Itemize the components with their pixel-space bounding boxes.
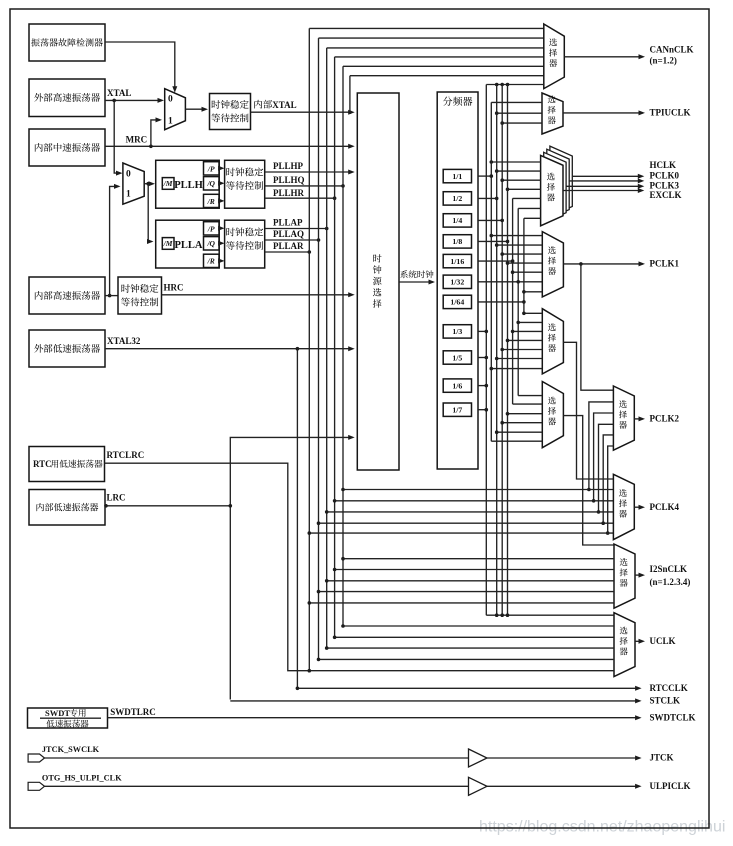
svg-text:/R: /R (207, 197, 215, 206)
selector mux TPIUCLK (542, 93, 563, 134)
divider /Q of PLLH (204, 177, 220, 190)
wire PLLAR to spine (265, 251, 310, 253)
divider 1/5 (443, 351, 471, 364)
svg-text:(n=1.2.3.4): (n=1.2.3.4) (650, 577, 691, 587)
svg-text:/P: /P (207, 224, 215, 233)
svg-text:MRC: MRC (126, 135, 148, 145)
svg-text:RTCLRC: RTCLRC (107, 450, 145, 460)
block internal medium-speed oscillator (29, 129, 105, 166)
block PLLH (156, 160, 220, 208)
selector mux I2SnCLK (614, 544, 635, 608)
wire XTAL down to PLL mux (114, 100, 120, 173)
wires stage1b inputs (518, 395, 542, 397)
wire top bus lines to CANnCLK selector (309, 27, 544, 29)
wire buffer to JTCK output (487, 757, 640, 759)
wire mux2 output to PLLH (144, 183, 153, 185)
wire HRC to clock-source-select (162, 294, 353, 296)
wire UCLK output (635, 640, 643, 642)
svg-text:PLLHQ: PLLHQ (273, 175, 305, 185)
wire divider tap vertical 1/3-bus (485, 85, 487, 616)
svg-text:(n=1.2): (n=1.2) (650, 56, 677, 66)
wire TPIU input3 (502, 122, 542, 124)
wires UCLK inputs from spine (343, 625, 614, 627)
svg-text:1/8: 1/8 (452, 237, 462, 246)
svg-text:SWDT: SWDT (45, 708, 70, 718)
wire divider tap vertical 1/2 (496, 85, 498, 616)
divider /P of PLLA (204, 222, 220, 235)
wires PCLK2-stage2 riser inputs (589, 402, 614, 490)
wire CAN input7 bus from divider taps (486, 84, 544, 86)
svg-text:1/32: 1/32 (450, 278, 464, 287)
svg-text:XTAL: XTAL (272, 100, 296, 110)
block internal high-speed oscillator (29, 277, 105, 314)
svg-text:/M: /M (163, 179, 173, 188)
svg-text:PLLHR: PLLHR (273, 188, 305, 198)
svg-text:https://blog.csdn.net/zhaopeng: https://blog.csdn.net/zhaopenglihui (479, 819, 725, 836)
svg-text:JTCK_SWCLK: JTCK_SWCLK (42, 745, 100, 754)
selector mux PCLK2-stage1a (542, 309, 563, 374)
wire RTCLRC from RTC-osc (105, 463, 615, 671)
svg-text:1/16: 1/16 (450, 257, 464, 266)
wires I2S inputs from spine (343, 558, 614, 560)
wire divider tap vertical 1/32 (517, 208, 519, 395)
node int-XTAL branch to spine (348, 110, 352, 114)
svg-text:XTAL: XTAL (107, 88, 131, 98)
wires stage1a inputs (524, 312, 542, 314)
divider /M of PLLH (162, 178, 174, 190)
wire PCLK4 output (634, 506, 643, 508)
divider 1/16 (443, 254, 471, 267)
block internal low-speed oscillator (29, 490, 105, 526)
wires HCLK mux inputs from divider taps (491, 161, 540, 163)
svg-text:CANnCLK: CANnCLK (650, 44, 694, 54)
wire stage1b output to I2S input (563, 416, 614, 545)
selector mux UCLK (614, 613, 635, 677)
divider 1/6 (443, 379, 471, 392)
svg-text:PLLAP: PLLAP (273, 218, 303, 228)
svg-text:PCLK4: PCLK4 (650, 502, 680, 512)
svg-text:TPIUCLK: TPIUCLK (650, 108, 691, 118)
selector mux PCLK4 (613, 474, 634, 539)
svg-text:OTG_HS_ULPI_CLK: OTG_HS_ULPI_CLK (42, 773, 122, 782)
svg-text:LRC: LRC (107, 493, 126, 503)
block oscillator-fault-detector (29, 24, 105, 61)
selector mux PCLK2 (613, 386, 634, 450)
svg-text:I2SnCLK: I2SnCLK (650, 564, 688, 574)
divider /P of PLLH (204, 162, 220, 175)
node mux2 output branch (146, 182, 150, 186)
svg-text:/Q: /Q (206, 239, 215, 248)
wire PLLAQ to spine (265, 239, 319, 241)
wire OTG_HS_ULPI_CLK to buffer (45, 785, 469, 787)
wire stage1a output to PCLK4 input (563, 342, 613, 479)
buffer ULPICLK (469, 777, 488, 795)
wire int-hs-osc to wait-control (105, 295, 118, 297)
svg-text:1/7: 1/7 (452, 406, 462, 415)
svg-text:0: 0 (126, 169, 131, 179)
wire spine int-XTAL vertical (349, 76, 351, 113)
wire spine PLLAQ vertical (318, 38, 320, 659)
block frequency divider (437, 92, 478, 469)
svg-text:RTC: RTC (33, 459, 52, 469)
svg-text:1/4: 1/4 (452, 216, 462, 225)
block clock-stable wait control (PLLA) (225, 220, 265, 268)
wire mux1 output to wait-control (185, 108, 206, 110)
svg-text:1/5: 1/5 (452, 353, 462, 362)
wire mux2 output down to PLLA (148, 184, 151, 242)
divider 1/32 (443, 275, 471, 288)
svg-text:EXCLK: EXCLK (650, 190, 682, 200)
wire MRC from int-ms-osc to clock-source-select (105, 145, 353, 147)
divider 1/4 (443, 214, 471, 227)
svg-text:1/6: 1/6 (452, 381, 462, 390)
block clock-source-select (357, 93, 399, 470)
svg-text:PCLK2: PCLK2 (650, 414, 680, 424)
wire int-XTAL to clock-source-select (251, 111, 353, 113)
divider 1/64 (443, 295, 471, 308)
wire UCLK input bus from divider taps (486, 614, 614, 616)
node PCLK1 output branch (579, 262, 583, 266)
buffer JTCK (469, 749, 488, 767)
wire JTCK_SWCLK to buffer (45, 757, 469, 759)
input port JTCK_SWCLK (28, 754, 44, 762)
divider 1/3 (443, 325, 471, 338)
wire I2SnCLK output (635, 574, 643, 576)
selector mux CANnCLK (544, 24, 565, 89)
wire PLLHP to clock-source-select (265, 171, 353, 173)
wire PCLK1 output (563, 263, 643, 265)
block clock-stable wait control (HRC) (118, 277, 162, 314)
divider /R of PLLH (204, 194, 220, 207)
wire spine PLLHR vertical (334, 57, 336, 637)
wires PLLA dividers to wait-control (219, 227, 223, 229)
svg-text:PLLH: PLLH (174, 180, 203, 191)
wire PLLAP to spine (265, 228, 327, 230)
wire buffer to ULPICLK output (487, 785, 640, 787)
wires divider output stubs (478, 175, 491, 177)
svg-text:/R: /R (207, 257, 215, 266)
input port OTG_HS_ULPI_CLK (28, 782, 44, 790)
svg-text:XTAL32: XTAL32 (107, 336, 141, 346)
wire HRC tap up to mux2 input 1 (110, 186, 119, 295)
wire LRC from int-ls-osc (105, 505, 230, 507)
wire TPIUCLK output (563, 112, 643, 114)
wire spine PLLAR vertical (308, 28, 310, 670)
svg-text:RTCCLK: RTCCLK (650, 683, 688, 693)
svg-text:ULPICLK: ULPICLK (650, 781, 691, 791)
mux2 PLL source selector (123, 163, 144, 204)
block RTC low-speed oscillator (29, 447, 105, 482)
block SWDT dedicated low-speed oscillator (28, 708, 108, 728)
svg-text:PLLAR: PLLAR (273, 241, 304, 251)
svg-text:PCLK0: PCLK0 (650, 170, 680, 180)
svg-text:/M: /M (163, 239, 173, 248)
block external low-speed oscillator (29, 330, 105, 367)
svg-text:0: 0 (168, 95, 173, 105)
wires PCLK1 inputs (491, 235, 542, 237)
block clock-stable wait control (XTAL path) (210, 94, 251, 130)
wire PLLHQ to spine (265, 185, 343, 187)
wire divider tap vertical 1/8 (507, 85, 509, 616)
wire PCLK2 output (634, 418, 643, 420)
wire divider tap vertical 1/16 (512, 198, 514, 404)
block clock-stable wait control (PLLH) (225, 160, 265, 208)
node MRC branch (149, 145, 153, 149)
svg-text:1/3: 1/3 (452, 327, 462, 336)
wire XTAL from ext-hs-osc to mux1 (105, 99, 162, 101)
block external high-speed oscillator (29, 79, 105, 117)
node XTAL32 branch down (296, 347, 300, 351)
divider /R of PLLA (204, 254, 220, 267)
selector mux PCLK2-stage1b (542, 382, 563, 448)
svg-text:PLLHP: PLLHP (273, 161, 304, 171)
selector mux HCLK/PCLK0/PCLK3/EXCLK (stacked) (550, 146, 572, 216)
wires PCLK4 input bundle from spine (343, 489, 613, 491)
wire spine PLLHQ vertical (342, 66, 344, 626)
svg-text:UCLK: UCLK (650, 636, 676, 646)
wire LRC riser to clock-source-select (230, 437, 352, 699)
mux1 XTAL/MRC selector (165, 89, 186, 130)
node XTAL branch (112, 99, 116, 103)
svg-text:HRC: HRC (164, 283, 184, 293)
svg-text:1/1: 1/1 (452, 172, 462, 181)
wire CANnCLK output (564, 56, 643, 58)
wire fault-detector to mux1 top (105, 42, 175, 91)
svg-text:1/2: 1/2 (452, 194, 462, 203)
wire TPIU input1 (491, 101, 542, 103)
svg-text:1: 1 (126, 189, 131, 199)
divider 1/8 (443, 235, 471, 248)
svg-text:HCLK: HCLK (650, 160, 677, 170)
svg-text:PLLA: PLLA (174, 240, 202, 251)
wire spine PLLAP vertical (326, 48, 328, 648)
wire SWDTLRC to SWDTCLK (108, 717, 640, 719)
wire PCLK1 branch to PCLK2-stage2 (581, 264, 614, 390)
wire TPIU input2 (497, 112, 542, 114)
block PLLA (156, 220, 220, 268)
svg-text:PLLAQ: PLLAQ (273, 229, 304, 239)
svg-text:PCLK1: PCLK1 (650, 259, 680, 269)
svg-text:JTCK: JTCK (650, 753, 674, 763)
divider /Q of PLLA (204, 237, 220, 250)
wire LRC to STCLK (230, 700, 639, 702)
svg-text:/P: /P (207, 164, 215, 173)
wires HCLK group outputs (572, 175, 642, 177)
svg-text:STCLK: STCLK (650, 696, 681, 706)
divider 1/1 (443, 169, 471, 182)
wire divider tap vertical 1/1 (490, 102, 492, 441)
divider 1/2 (443, 192, 471, 205)
wire divider tap vertical 1/64 (523, 218, 525, 313)
wire XTAL32 to clock-source-select (105, 348, 353, 350)
wire divider tap vertical 1/4 (501, 85, 503, 616)
svg-text:SWDTCLK: SWDTCLK (650, 712, 696, 722)
svg-text:1: 1 (168, 117, 173, 127)
divider /M of PLLA (162, 238, 174, 250)
divider 1/7 (443, 403, 471, 416)
wire MRC up to mux1 input 1 (151, 120, 160, 146)
wires PLLH dividers to wait-control (219, 167, 223, 169)
svg-text:1/64: 1/64 (450, 298, 464, 307)
svg-text:/Q: /Q (206, 179, 215, 188)
wire system clock to divider (399, 281, 433, 283)
selector mux PCLK1 (542, 232, 563, 297)
svg-text:SWDTLRC: SWDTLRC (110, 707, 156, 717)
wire XTAL32 riser to RTCCLK (297, 349, 639, 689)
wire PLLHR to spine (265, 197, 335, 199)
